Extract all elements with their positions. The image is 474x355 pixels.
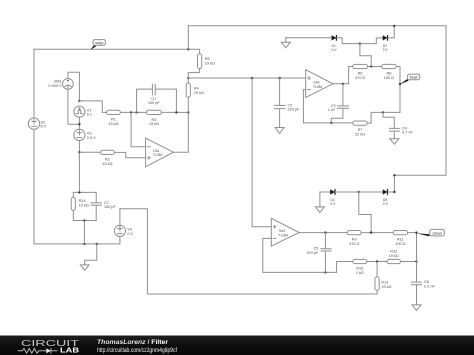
svg-text:LAB: LAB <box>60 346 79 355</box>
capacitor C1 branch wires <box>137 89 177 112</box>
diode D2 <box>383 35 389 52</box>
wire V4 top stem <box>119 209 121 226</box>
wire feedback jog up to R10 <box>337 262 353 273</box>
svg-text:22 kΩ: 22 kΩ <box>355 133 365 137</box>
resistor R1 <box>107 110 121 126</box>
voltage source V4 <box>114 225 133 236</box>
svg-text:2.2 nF: 2.2 nF <box>424 284 435 288</box>
svg-text:0 V: 0 V <box>330 202 336 206</box>
wire R13 top <box>376 262 378 277</box>
resistor R3 <box>146 110 161 126</box>
wire C4 bottom <box>393 131 395 138</box>
wire R8 right to fast node <box>396 67 400 113</box>
node top rail D2 <box>393 25 395 27</box>
wire supp node up to top rail <box>187 26 189 50</box>
resistor R9 <box>347 231 361 247</box>
wire V1 bottom to node <box>78 117 80 129</box>
diode D4 <box>330 189 336 206</box>
wire mid node to D5 anode <box>359 191 383 193</box>
node slow flag <box>415 231 417 233</box>
svg-text:1 kΩ: 1 kΩ <box>356 271 364 275</box>
wire V1 top node to R1 <box>79 101 106 113</box>
wire D4 cathode to mid node <box>336 191 359 193</box>
voltage source V2 <box>28 118 46 129</box>
node OA3 long branch <box>251 77 253 79</box>
svg-text:supp: supp <box>95 41 103 45</box>
wire ground to D1 anode <box>286 37 332 39</box>
resistor R13 <box>375 277 392 291</box>
svg-text:0 V: 0 V <box>127 232 133 236</box>
voltmeter VM1 <box>48 79 73 90</box>
wire VM1 bottom to V1-V3 node <box>68 89 80 124</box>
node C5 top <box>324 231 326 233</box>
wire C6 top <box>416 262 418 282</box>
capacitor C5 <box>307 247 332 255</box>
ground under C6 <box>412 305 421 311</box>
node V3 bottom / R2 branch <box>78 151 80 153</box>
resistor R8 <box>382 64 397 80</box>
wire C5 vertical bottom <box>324 251 326 272</box>
wire OA1 inverting input <box>131 112 146 146</box>
node C5 bottom <box>324 271 326 273</box>
node V1-V3 <box>78 123 80 125</box>
resistor R2 <box>101 150 115 166</box>
svg-text:19 kΩ: 19 kΩ <box>389 254 399 258</box>
node supp/R5 <box>187 48 189 50</box>
resistor R6 <box>353 64 368 80</box>
node block top <box>78 191 80 193</box>
node R4 bottom / OA1 out <box>187 111 189 113</box>
wire D2 cathode to top rail <box>388 26 394 38</box>
svg-text:fast: fast <box>410 76 419 80</box>
svg-text:19 kΩ: 19 kΩ <box>381 285 391 289</box>
wire bottom-left horizontal to V4 <box>34 243 120 245</box>
wire R2 to OA1 non-inverting input <box>79 151 100 153</box>
node junction at ground branch <box>96 243 98 245</box>
svg-text:100 pF: 100 pF <box>104 205 117 209</box>
wire block bottom stem <box>83 221 85 244</box>
node C4 branch <box>382 111 384 113</box>
svg-text:10 kΩ: 10 kΩ <box>102 162 112 166</box>
capacitor C2 <box>274 103 300 111</box>
capacitor C7 <box>91 201 117 209</box>
node C6/R12 <box>415 260 417 262</box>
node R4/R5/OA2+ <box>187 77 189 79</box>
node C2 branch <box>278 77 280 79</box>
svg-text:0 V: 0 V <box>383 202 389 206</box>
svg-text:slow: slow <box>432 231 442 235</box>
svg-text:5 V: 5 V <box>41 125 47 129</box>
wire R2 right jog to OA1 + <box>114 152 145 157</box>
wire R5 top to supp node <box>188 49 199 54</box>
node C3 bottom junction <box>330 122 332 124</box>
ground top middle <box>281 38 290 48</box>
wire C4 branch jog <box>383 112 394 128</box>
ground bottom middle row <box>315 192 324 212</box>
node R6/R8 diode branch <box>370 65 372 67</box>
wire OA2 output up to R6 <box>349 67 353 84</box>
wire R9 to R11 <box>361 232 393 234</box>
node flag supp <box>90 40 105 50</box>
wire OA3 output to R9 <box>299 232 347 234</box>
node OA1 inverting branch <box>130 111 132 113</box>
svg-text:http://circuitlab.com/cz2gnm4g: http://circuitlab.com/cz2gnm4g8p9cf <box>97 348 177 354</box>
voltage source V3 <box>74 129 96 140</box>
svg-text:10 kΩ: 10 kΩ <box>79 204 89 208</box>
svg-text:19 kΩ: 19 kΩ <box>108 122 118 126</box>
node block bottom <box>83 219 85 221</box>
resistor R11 <box>393 231 407 247</box>
node C1 left branch <box>135 111 137 113</box>
wire C3 bottom jog to feedback rail <box>331 109 343 123</box>
svg-text:0 s: 0 s <box>87 113 92 117</box>
wire C6 bottom <box>416 285 418 305</box>
node flag slow <box>416 229 444 236</box>
wire OA2 non-inverting rail <box>188 77 305 79</box>
svg-text:TL084: TL084 <box>279 234 289 238</box>
wire R10 to R12 <box>367 261 387 263</box>
svg-text:19 kΩ: 19 kΩ <box>205 62 215 66</box>
svg-text:VM1: VM1 <box>54 79 62 83</box>
svg-text:470 pF: 470 pF <box>307 251 320 255</box>
wire left vertical V2 branch upper <box>33 49 35 118</box>
wire R11 right to slow node <box>408 233 417 262</box>
node diode mid bottom <box>358 191 360 193</box>
wire V4 bottom stem <box>119 237 121 244</box>
wire left vertical V2 branch lower <box>33 129 35 244</box>
wire mid node down to R9/R11 node <box>359 192 371 233</box>
capacitor C6 <box>412 280 436 288</box>
svg-text:100 pF: 100 pF <box>148 101 161 105</box>
capacitor C1 <box>148 84 161 105</box>
svg-text:220 pF: 220 pF <box>288 108 301 112</box>
wire ground jog bottom-left <box>85 244 97 265</box>
wire VM1 top to V1 top node <box>68 72 80 101</box>
node fast flag <box>399 83 401 85</box>
resistor R14 <box>71 197 89 210</box>
wire diode mid branch down to R6/R8 node <box>360 44 371 67</box>
ground under C4 <box>390 139 399 145</box>
wire fast column to R7/C4 rail <box>371 112 400 121</box>
node D5 right loop <box>393 191 395 193</box>
svg-text:0 V: 0 V <box>383 48 389 52</box>
wire D5 cathode to right loop <box>388 191 394 193</box>
op-amp OA2 TL084 <box>306 70 333 98</box>
wire OA1 output <box>174 97 189 152</box>
svg-text:100 Ω: 100 Ω <box>395 242 405 246</box>
wire C3 vertical from output node <box>342 84 344 106</box>
bottom bar <box>0 336 474 355</box>
diode D1 <box>332 35 338 52</box>
node R9/R11 <box>370 231 372 233</box>
svg-text:19 kΩ: 19 kΩ <box>149 122 159 126</box>
node C1 right branch <box>175 111 177 113</box>
wire C2 bottom <box>279 109 281 128</box>
wire OA2 output <box>333 83 349 85</box>
svg-text:0.000 V: 0.000 V <box>48 84 62 88</box>
node OA2 output / C3 <box>342 83 344 85</box>
svg-text:2.5 V: 2.5 V <box>87 136 96 140</box>
node V1 top <box>78 100 80 102</box>
resistor R10 <box>353 259 367 275</box>
svg-text:470 Ω: 470 Ω <box>355 76 365 80</box>
node diode mid top <box>359 42 361 44</box>
wire OA3 inverting input loop <box>263 238 337 272</box>
svg-text:0 V: 0 V <box>332 48 338 52</box>
svg-text:4.7 nF: 4.7 nF <box>402 131 413 135</box>
wire V3 bottom to R2 node <box>78 141 80 193</box>
capacitor C3 <box>328 104 349 112</box>
node loop corner <box>393 174 395 176</box>
wire D1 cathode jog to mid node <box>337 38 360 44</box>
op-amp OA1 TL084 <box>146 138 174 167</box>
op-amp OA3 TL084 <box>271 218 299 246</box>
svg-text:470 Ω: 470 Ω <box>349 242 359 246</box>
wire mid node to D2 anode <box>360 38 383 44</box>
svg-text:ThomasLorenz / Filter: ThomasLorenz / Filter <box>97 340 169 346</box>
node flag fast <box>400 74 420 84</box>
resistor R4 <box>186 83 204 97</box>
diode D5 <box>383 189 389 206</box>
resistor R5 <box>198 54 215 69</box>
resistor R14 parallel block wires <box>73 192 96 220</box>
wire R7 right pin <box>367 121 371 123</box>
wire R3 to R4 node <box>161 111 188 113</box>
wire R5 bottom jog <box>188 69 199 78</box>
ground under C2 <box>275 128 284 134</box>
node junction at R14 stem bottom <box>83 243 85 245</box>
resistor R12 <box>387 250 401 264</box>
resistor R7 <box>353 121 367 137</box>
ground bottom-left <box>80 265 89 270</box>
wire ground to D4 anode <box>320 191 330 193</box>
svg-text:TL084: TL084 <box>313 85 323 89</box>
wire R4 top node <box>187 78 189 83</box>
svg-text:150 Ω: 150 Ω <box>384 76 394 80</box>
capacitor C4 <box>389 126 413 134</box>
wire R13 bottom long return <box>120 209 377 294</box>
wire supp net top-left horizontal <box>34 48 188 50</box>
node R10/R12/R13 <box>376 260 378 262</box>
svg-text:TL084: TL084 <box>153 153 163 157</box>
svg-text:1 nF: 1 nF <box>328 108 336 112</box>
wire C2 top <box>279 78 281 105</box>
wire R1 to R3 <box>120 111 146 113</box>
wire top rail to right edge loop <box>188 26 446 192</box>
wire R6 to R8 <box>368 66 382 68</box>
wire OA3 non-inverting long branch <box>252 78 271 227</box>
wire OA2 inverting input loop <box>303 90 353 123</box>
svg-text:19 kΩ: 19 kΩ <box>194 91 204 95</box>
wire R12 right to C6 column <box>401 261 417 263</box>
voltage source V1 square wave <box>74 106 92 117</box>
wire C5 vertical top <box>324 233 326 249</box>
